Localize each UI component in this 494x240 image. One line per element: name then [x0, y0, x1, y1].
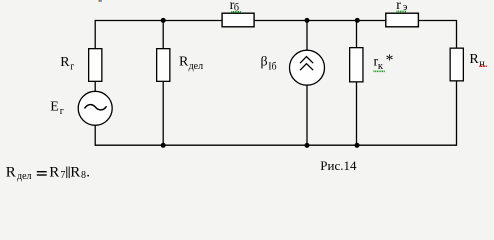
wire top rail to rк	[356, 21, 358, 48]
wire top rail to Rдел	[162, 21, 164, 49]
resistor Rг	[89, 49, 102, 82]
label rк*	[374, 52, 394, 72]
resistor rб	[222, 13, 254, 27]
label rб	[230, 0, 240, 13]
spellcheck squiggle under rэ	[397, 10, 407, 12]
spellcheck squiggle (red) under Rн subscript	[479, 65, 486, 67]
svg-text:дел: дел	[189, 61, 204, 72]
current source βIб (circle with double chevron)	[290, 50, 325, 85]
formula Rдел = R7||R8	[6, 165, 90, 182]
resistor rэ	[386, 13, 419, 27]
svg-text:R: R	[469, 52, 479, 67]
label Rн	[469, 52, 485, 69]
label Rг	[60, 55, 74, 73]
wire current source to bottom rail	[306, 85, 308, 145]
wire top-left horizontal (node B rail left of rб)	[95, 20, 222, 22]
wire Rдел to bottom rail	[162, 82, 164, 145]
node bottom of Rдел branch	[161, 143, 166, 148]
wire bottom rail	[95, 144, 457, 146]
node top of rк branch	[355, 18, 360, 23]
svg-text:*: *	[386, 52, 394, 69]
svg-text:β: β	[261, 55, 268, 70]
spellcheck squiggle under rб	[231, 11, 240, 13]
svg-text:R: R	[60, 55, 70, 70]
label Rдел	[179, 54, 203, 72]
svg-text:R: R	[179, 54, 189, 69]
svg-text:г: г	[70, 62, 74, 73]
wire Rг to Eг	[94, 82, 96, 94]
label Eг	[50, 100, 64, 118]
svg-text:R: R	[49, 165, 59, 181]
wire left branch upper (top rail to Rг)	[94, 20, 96, 49]
node bottom of rк branch	[355, 143, 360, 148]
source Eг (sine source circle)	[78, 91, 112, 125]
svg-text:Iб: Iб	[268, 62, 276, 73]
resistor Rдел	[157, 49, 170, 82]
wire top middle (between rб and rэ)	[255, 20, 386, 22]
wire rк to bottom rail	[356, 83, 358, 146]
svg-text:R: R	[70, 165, 80, 181]
wire top rail to current source	[306, 21, 308, 51]
svg-text:н: н	[479, 59, 485, 70]
svg-text:Рис.14: Рис.14	[320, 158, 357, 173]
spellcheck squiggle under rк	[374, 70, 385, 72]
wire top rail to Rн	[456, 20, 458, 48]
svg-text:7: 7	[60, 170, 65, 181]
resistor Rн	[450, 48, 463, 81]
node bottom of βIб branch	[305, 143, 310, 148]
svg-text:R: R	[6, 165, 16, 181]
svg-text:.: .	[86, 165, 90, 181]
wire top-right (right of rэ)	[419, 20, 457, 22]
label βIб	[261, 55, 277, 73]
node top of Rдел branch	[161, 18, 166, 23]
node top of βIб branch	[305, 18, 310, 23]
wire Rн to bottom rail	[456, 82, 458, 146]
svg-text:дел: дел	[17, 171, 32, 182]
resistor rк*	[350, 48, 363, 82]
label rэ	[396, 0, 408, 13]
svg-text:E: E	[50, 100, 59, 115]
screen artifact mark top	[99, 0, 102, 2]
caption Рис.14	[320, 158, 357, 173]
wire Eг to bottom rail	[94, 125, 96, 146]
svg-text:г: г	[60, 106, 64, 117]
